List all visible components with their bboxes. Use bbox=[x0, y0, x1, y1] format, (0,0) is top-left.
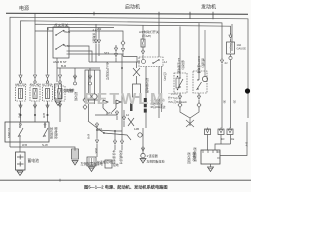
svg-text:发动机舱: 发动机舱 bbox=[50, 127, 55, 139]
svg-text:发动机线束: 发动机线束 bbox=[193, 147, 198, 162]
R2 contact bbox=[197, 82, 202, 90]
svg-text:ST2: ST2 bbox=[104, 51, 110, 55]
arrow pair x116 bbox=[114, 46, 117, 51]
connector 2J bbox=[220, 58, 223, 63]
junction dot c2 bbox=[34, 114, 36, 116]
wire h115 bbox=[95, 114, 117, 116]
crossing X mid bbox=[133, 68, 140, 76]
fuse column 4 dashed box bbox=[55, 86, 65, 101]
wire bus frame 1 bbox=[10, 17, 248, 147]
wire ECU right bbox=[220, 122, 247, 156]
ignition switch box bbox=[53, 27, 69, 58]
black dot artifact bbox=[245, 88, 250, 93]
svg-text:EETWLM: EETWLM bbox=[84, 91, 165, 108]
svg-text:14B: 14B bbox=[134, 127, 139, 131]
svg-text:S-W: S-W bbox=[42, 143, 48, 147]
diagonal from starter down bbox=[88, 121, 104, 133]
connector 2A bbox=[73, 74, 76, 79]
crossing low right bbox=[186, 120, 194, 127]
tick marks on main line bbox=[93, 12, 95, 16]
wire from box low2 bbox=[69, 54, 122, 131]
body ground component bbox=[72, 149, 79, 159]
main power bus line bbox=[6, 13, 248, 14]
wire below fuse 3 bbox=[47, 101, 49, 122]
wire drop x75 bbox=[74, 68, 76, 82]
svg-text:主熔丝: 主熔丝 bbox=[66, 87, 75, 92]
wire jb to battery bbox=[19, 142, 21, 152]
svg-text:B-R: B-R bbox=[61, 64, 67, 68]
svg-text:蓄电池: 蓄电池 bbox=[28, 158, 40, 163]
diamond on starter left 2 bbox=[83, 105, 87, 110]
battery bbox=[16, 152, 26, 170]
relay R2 dashed box bbox=[193, 71, 207, 93]
svg-text:起动机: 起动机 bbox=[74, 92, 79, 101]
wire drop x90 bbox=[89, 68, 91, 82]
svg-text:3B: 3B bbox=[223, 100, 227, 104]
ECU box bbox=[201, 150, 220, 164]
fuse F3 bbox=[46, 89, 50, 99]
connector below fuse 1 bbox=[19, 103, 22, 108]
fuse column 3 dashed box bbox=[43, 86, 53, 101]
R1 internals bbox=[178, 79, 183, 88]
svg-text:发动机接地: 发动机接地 bbox=[119, 150, 123, 164]
connector 1C bbox=[205, 128, 211, 135]
arrow on diagonal bbox=[95, 122, 98, 127]
svg-text:2-2: 2-2 bbox=[97, 27, 102, 31]
switch contact 2 bbox=[56, 44, 64, 49]
wire from box low bbox=[69, 51, 92, 62]
svg-text:AM1 40A: AM1 40A bbox=[30, 83, 42, 87]
wire col3 drop bbox=[48, 28, 115, 74]
flag component 1 bbox=[103, 100, 108, 108]
wire h62 bbox=[89, 61, 140, 63]
junction dot c3 bbox=[47, 114, 49, 116]
svg-text:B: B bbox=[47, 27, 49, 31]
svg-text:启动机: 启动机 bbox=[125, 4, 140, 11]
svg-text:点火开关信号: 点火开关信号 bbox=[106, 62, 111, 80]
diamond on starter left 1 bbox=[83, 98, 87, 103]
fuse column 1 connector bbox=[19, 73, 22, 78]
connector 1D bbox=[218, 128, 224, 135]
wire S-W bbox=[10, 147, 75, 151]
junction and wire right bbox=[103, 132, 105, 134]
starter coil 1 bbox=[86, 94, 91, 99]
arrow on h bbox=[115, 110, 118, 115]
wires into R2 bbox=[198, 23, 200, 80]
svg-text:(带A/P): (带A/P) bbox=[142, 34, 151, 38]
small blobs column2 bbox=[130, 103, 133, 111]
junction dot c1 bbox=[20, 114, 22, 116]
wires into relay bbox=[142, 26, 144, 40]
wire below fuse 1 bbox=[20, 101, 22, 122]
fuse column 2 connector bbox=[33, 73, 36, 78]
svg-text:1E: 1E bbox=[231, 137, 234, 141]
col x97 bbox=[96, 128, 98, 138]
connector arrows mid bbox=[94, 38, 97, 43]
wire below starter bbox=[88, 99, 90, 121]
wires below relays bbox=[179, 93, 181, 96]
ground under ECU bbox=[210, 164, 212, 167]
col x122 bbox=[121, 131, 123, 140]
connector above right fuse bbox=[229, 33, 232, 38]
svg-text:继电器盒: 继电器盒 bbox=[54, 127, 59, 139]
wire col4 drop bbox=[59, 68, 61, 73]
box pin ticks bbox=[67, 45, 70, 47]
ammeter component bbox=[55, 84, 62, 99]
svg-text:W-B: W-B bbox=[42, 113, 45, 118]
flag component 2 bbox=[116, 100, 121, 108]
wire below ignition box bbox=[56, 58, 58, 82]
converge below relays bbox=[180, 107, 199, 118]
svg-text:W-B: W-B bbox=[94, 148, 98, 154]
svg-text:图5—1—2 电源、起动机、发动机系统电路图: 图5—1—2 电源、起动机、发动机系统电路图 bbox=[84, 184, 168, 191]
svg-text:GAUGE: GAUGE bbox=[237, 47, 247, 51]
distribution wire y68 bbox=[57, 67, 100, 69]
fuse F1 bbox=[19, 89, 23, 99]
wires to ECU bbox=[207, 135, 209, 151]
svg-text:(起动用): (起动用) bbox=[181, 60, 185, 70]
small box bottom mid bbox=[105, 160, 112, 168]
junction box lower-left bbox=[5, 122, 49, 142]
starter box bbox=[85, 70, 100, 100]
col x143 chain bbox=[142, 128, 144, 153]
crossing comp low bbox=[128, 118, 134, 126]
wire bus frame 3 bbox=[35, 24, 231, 73]
svg-text:EFI主继电器: EFI主继电器 bbox=[177, 58, 181, 74]
relay R1 dashed box bbox=[174, 73, 187, 93]
circle comp low mid bbox=[138, 133, 142, 137]
wire bus frame 2 bbox=[21, 21, 223, 73]
svg-text:AM1: AM1 bbox=[65, 30, 71, 34]
svg-text:(无A/P): (无A/P) bbox=[163, 72, 167, 81]
wire into R1 bbox=[179, 66, 181, 73]
bottom rule bbox=[0, 179, 251, 181]
link h130 bbox=[97, 130, 122, 131]
switch inside jb 2 bbox=[43, 128, 48, 137]
connector above relay bbox=[141, 49, 144, 54]
svg-text:左侧围板接地: 左侧围板接地 bbox=[147, 159, 165, 164]
svg-text:ALT 80A: ALT 80A bbox=[42, 83, 53, 87]
jb pin circles bbox=[20, 124, 22, 126]
wire from box mid bbox=[69, 46, 89, 62]
connector below fuse 2 bbox=[33, 103, 36, 108]
wire below fuse 2 bbox=[34, 101, 36, 115]
svg-text:FL MAIN: FL MAIN bbox=[7, 128, 11, 138]
R2 coil bbox=[202, 76, 207, 81]
svg-text:1D: 1D bbox=[221, 137, 224, 141]
fuse above relay bbox=[141, 39, 145, 47]
pin bus dark column bbox=[144, 98, 147, 102]
switch inside jb 1 bbox=[18, 128, 23, 137]
wires below relay bbox=[145, 67, 147, 99]
right fuse box bbox=[227, 42, 235, 54]
fuse column 3 connector bbox=[46, 73, 49, 78]
wire below fuse 4 bbox=[59, 101, 61, 122]
svg-text:电源: 电源 bbox=[19, 5, 29, 12]
ground below bbox=[72, 161, 78, 166]
starter coil 2 bbox=[92, 94, 97, 99]
circle below right fuse bbox=[229, 56, 232, 59]
relay A/P dashed box bbox=[139, 57, 163, 67]
fuse column 2 dashed box bbox=[30, 86, 40, 101]
svg-text:发动机控: 发动机控 bbox=[187, 152, 192, 164]
svg-text:1′连接器: 1′连接器 bbox=[147, 153, 158, 158]
svg-text:7Mo刀BA Easb: 7Mo刀BA Easb bbox=[168, 100, 187, 104]
chain x124 bbox=[122, 115, 125, 120]
svg-text:发动机: 发动机 bbox=[201, 4, 216, 11]
fuse F4 bbox=[58, 89, 62, 99]
svg-text:10A: 10A bbox=[237, 43, 242, 47]
wire into box left bbox=[35, 30, 53, 32]
svg-text:W-B: W-B bbox=[87, 134, 91, 139]
svg-text:W-B: W-B bbox=[22, 143, 27, 147]
relay internals bbox=[142, 60, 146, 64]
wire mid drops bbox=[95, 24, 97, 38]
svg-text:接地: 接地 bbox=[113, 163, 119, 167]
hatched box bottom left-mid bbox=[87, 157, 96, 166]
converge wires bbox=[103, 108, 116, 115]
fuse column 4 connector bbox=[58, 73, 61, 78]
fuse column 1 dashed box bbox=[16, 86, 26, 101]
svg-text:2B: 2B bbox=[233, 100, 237, 104]
svg-text:(燃油泵): (燃油泵) bbox=[201, 58, 205, 68]
component box mid bbox=[133, 84, 141, 97]
svg-text:B-Y: B-Y bbox=[245, 142, 249, 147]
fuse F2 bbox=[33, 89, 37, 99]
col x115 bbox=[114, 130, 116, 140]
ground below ammeter bbox=[55, 101, 61, 106]
svg-text:W-B: W-B bbox=[18, 113, 21, 118]
ground under battery bbox=[17, 171, 23, 176]
connector 1E bbox=[227, 128, 233, 135]
wire from box to right top bbox=[69, 31, 123, 41]
diamond chain x123 bbox=[121, 41, 125, 46]
svg-text:ST2: ST2 bbox=[107, 111, 113, 115]
connector below fuse 3 bbox=[46, 103, 49, 108]
svg-text:12: 12 bbox=[126, 113, 130, 117]
svg-text:AM2 30A: AM2 30A bbox=[15, 83, 27, 87]
R1 inner bar bbox=[176, 78, 179, 88]
svg-text:点火开关: 点火开关 bbox=[54, 23, 69, 28]
switch contact 1 bbox=[56, 30, 64, 35]
connector 2B bbox=[88, 74, 91, 79]
